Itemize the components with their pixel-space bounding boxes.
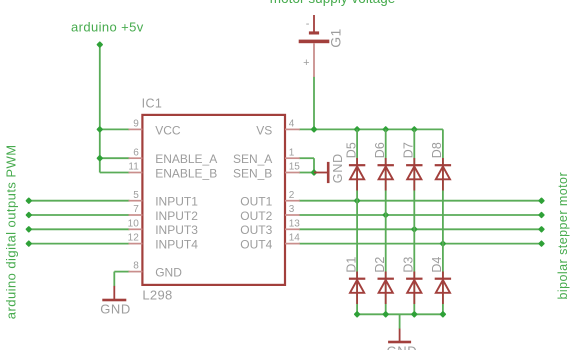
wire +5v to pin 6 ENABLE_A <box>100 157 130 159</box>
svg-text:OUT4: OUT4 <box>240 238 272 252</box>
svg-text:motor supply voltage: motor supply voltage <box>270 0 396 6</box>
node stepper motor dot OUT4 <box>538 240 545 247</box>
junction OUT3 / diode column <box>411 226 418 233</box>
svg-text:-: - <box>306 18 310 30</box>
svg-text:D4: D4 <box>430 257 444 273</box>
svg-text:OUT1: OUT1 <box>240 195 272 209</box>
pin 1 SEN_A <box>233 147 300 166</box>
pin 4 VS <box>256 119 300 138</box>
ground (sense pins, rotated) <box>314 153 345 183</box>
pin 10 INPUT3 <box>128 218 199 237</box>
svg-text:12: 12 <box>128 233 140 244</box>
wire +5v to pin 9 VCC <box>100 128 130 130</box>
svg-text:ENABLE_A: ENABLE_A <box>155 152 217 166</box>
diode D5 <box>344 142 365 190</box>
junction SEN_B / ground <box>310 169 317 176</box>
svg-text:2: 2 <box>289 190 295 201</box>
svg-text:SEN_B: SEN_B <box>233 166 272 180</box>
junction bottom rail / D1 <box>354 311 361 318</box>
svg-text:D1: D1 <box>344 257 358 273</box>
wire +5v elbow to pin 11 ENABLE_B <box>100 172 130 174</box>
svg-text:ENABLE_B: ENABLE_B <box>155 166 217 180</box>
node arduino pin dot INPUT3 <box>25 226 32 233</box>
svg-text:VS: VS <box>256 123 272 137</box>
svg-text:SEN_A: SEN_A <box>233 152 272 166</box>
wire OUT4 to stepper motor <box>299 243 542 245</box>
svg-text:bipolar stepper motor: bipolar stepper motor <box>556 172 570 300</box>
svg-text:D3: D3 <box>402 257 416 273</box>
svg-text:INPUT4: INPUT4 <box>155 238 198 252</box>
wire bottom rail to ground <box>399 314 401 329</box>
node arduino pin dot INPUT1 <box>25 197 32 204</box>
svg-text:G1: G1 <box>327 28 343 47</box>
svg-text:GND: GND <box>331 153 345 183</box>
junction VS / D7 <box>411 126 418 133</box>
pin 5 INPUT1 <box>129 190 199 209</box>
junction bottom rail / D3 <box>411 311 418 318</box>
wire +5v vertical from supply dot <box>99 45 101 173</box>
wire SEN_A to SEN_B vertical <box>313 158 315 172</box>
op-amp/driver IC1 L298 box <box>142 115 285 285</box>
svg-text:OUT3: OUT3 <box>240 223 272 237</box>
pin 13 OUT3 <box>240 218 300 237</box>
svg-text:D8: D8 <box>430 142 444 158</box>
junction +5v / ENABLE_A <box>96 155 103 162</box>
node arduino +5v supply dot <box>96 41 103 48</box>
ground (pin 8, lower left) <box>100 286 131 317</box>
svg-text:INPUT3: INPUT3 <box>155 223 198 237</box>
diode D8 <box>430 142 451 190</box>
wire diode column D7/D3 <box>413 129 415 314</box>
svg-text:D7: D7 <box>402 142 416 158</box>
svg-text:4: 4 <box>289 119 295 130</box>
wire arduino output to INPUT2 <box>29 214 130 216</box>
svg-text:GND: GND <box>155 266 182 280</box>
pin 3 OUT2 <box>240 204 300 223</box>
svg-text:D6: D6 <box>373 142 387 158</box>
wire OUT2 to stepper motor <box>299 214 542 216</box>
node arduino pin dot INPUT2 <box>25 211 32 218</box>
wire SEN_A pin 1 <box>299 157 314 159</box>
wire diode column D5/D1 <box>356 129 358 314</box>
svg-text:3: 3 <box>289 204 295 215</box>
wire arduino output to INPUT3 <box>29 228 130 230</box>
wire arduino output to INPUT1 <box>29 200 130 202</box>
wire OUT3 to stepper motor <box>299 228 542 230</box>
svg-text:6: 6 <box>133 147 139 158</box>
svg-text:arduino +5v: arduino +5v <box>71 19 144 34</box>
pin 2 OUT1 <box>240 190 300 209</box>
svg-text:+: + <box>303 57 309 69</box>
svg-text:INPUT1: INPUT1 <box>155 195 198 209</box>
svg-text:D5: D5 <box>344 142 358 158</box>
wire OUT1 to stepper motor <box>299 200 542 202</box>
pin 8 GND <box>129 261 183 280</box>
svg-text:11: 11 <box>128 162 139 173</box>
svg-text:1: 1 <box>289 147 295 158</box>
svg-text:5: 5 <box>133 190 139 201</box>
wire diode bottom rail <box>357 313 443 315</box>
wire diode column D6/D2 <box>385 129 387 314</box>
junction OUT1 / diode column <box>354 197 361 204</box>
diode D6 <box>373 142 394 190</box>
junction +5v / VCC <box>96 126 103 133</box>
wire arduino output to INPUT4 <box>29 243 130 245</box>
junction VS / D5 <box>354 126 361 133</box>
pin 6 ENABLE_A <box>129 147 218 166</box>
junction bottom rail / D2 <box>382 311 389 318</box>
diode D7 <box>402 142 423 190</box>
diode D4 <box>430 257 451 304</box>
junction OUT2 / diode column <box>382 211 389 218</box>
wire battery G1 to VS rail <box>313 77 315 130</box>
svg-text:GND: GND <box>387 343 418 350</box>
svg-text:L298: L298 <box>142 288 172 303</box>
wire VS rail horizontal <box>299 128 443 130</box>
svg-text:10: 10 <box>128 218 140 229</box>
svg-text:GND: GND <box>100 302 131 317</box>
svg-text:OUT2: OUT2 <box>240 209 272 223</box>
svg-text:VCC: VCC <box>155 123 181 137</box>
diode D1 <box>344 257 365 304</box>
junction bottom rail / D4 <box>439 311 446 318</box>
svg-text:arduino digital outputs PWM: arduino digital outputs PWM <box>4 144 19 319</box>
svg-text:14: 14 <box>289 233 301 244</box>
node stepper motor dot OUT3 <box>538 226 545 233</box>
svg-text:8: 8 <box>133 261 139 272</box>
junction OUT4 / diode column <box>439 240 446 247</box>
pin 12 INPUT4 <box>128 233 199 252</box>
svg-text:IC1: IC1 <box>142 97 163 111</box>
svg-text:D2: D2 <box>373 257 387 273</box>
diode D2 <box>373 257 394 304</box>
svg-text:INPUT2: INPUT2 <box>155 209 198 223</box>
junction VS / D6 <box>382 126 389 133</box>
pin 9 VCC <box>129 119 181 138</box>
wire pin 8 GND vertical <box>113 272 115 287</box>
ground (bottom rail) <box>387 329 418 350</box>
node stepper motor dot OUT1 <box>538 197 545 204</box>
svg-text:13: 13 <box>289 218 301 229</box>
pin 14 OUT4 <box>240 233 300 252</box>
wire diode column D8/D4 <box>442 129 444 314</box>
node stepper motor dot OUT2 <box>538 211 545 218</box>
diode D3 <box>402 257 423 304</box>
svg-text:7: 7 <box>133 204 139 215</box>
wire pin 8 GND horizontal <box>114 271 129 273</box>
pin 15 SEN_B <box>233 162 300 181</box>
svg-text:9: 9 <box>133 119 139 130</box>
svg-text:15: 15 <box>289 162 301 173</box>
node arduino pin dot INPUT4 <box>25 240 32 247</box>
battery G1 <box>299 15 344 77</box>
wire SEN_B pin 15 <box>299 172 314 174</box>
pin 7 INPUT2 <box>129 204 199 223</box>
junction VS / battery <box>310 126 317 133</box>
pin 11 ENABLE_B <box>128 162 217 181</box>
